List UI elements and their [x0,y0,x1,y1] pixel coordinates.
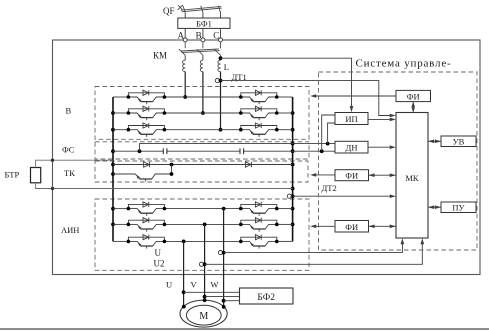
wire BTR bottom lead to right bus [36,183,293,190]
inverter AIN dashed enclosure [95,199,309,270]
capacitor C1 [163,148,167,154]
wire phase C reactor to DT1 and rectifier row 3 [219,72,223,132]
svg-text:QF: QF [163,6,175,16]
wire sense branch to IP lower pin [328,123,335,144]
wire phase A reactor to rectifier row 1 [183,72,187,99]
filter FS dashed enclosure [95,142,309,159]
current sensor on phase W [218,251,225,255]
svg-text:ДН: ДН [346,143,358,153]
diode TK VD1 [144,162,150,167]
wire DT2 signal to MK [293,194,396,198]
encoder block BF2 [240,288,294,304]
svg-text:ФС: ФС [62,145,75,155]
wire rectifier row 2 [113,112,293,114]
current sensor on phase V [199,262,206,266]
wire V to BF2 [203,295,240,299]
wire phase B reactor to rectifier row 2 [201,72,205,115]
wire KM phase C tap to IP (power supply) [219,56,354,112]
inductor L phase C [218,60,221,71]
wire phase V sensor signal to MK [205,238,425,264]
rectifier B dashed enclosure [95,87,309,140]
svg-text:ТК: ТК [64,168,75,178]
svg-text:C: C [213,31,219,41]
transistor rectifier arm 2 right [239,106,279,120]
node A terminal [178,31,188,42]
wire FI bottom to inverter gates [310,225,335,229]
svg-text:ДТ2: ДТ2 [322,183,337,193]
block MK (microcontroller) [396,113,428,239]
node B terminal [196,31,205,42]
wire KM to line reactors [185,55,220,60]
wire DT1 signal to MK [221,81,396,118]
block IP (power supply) [335,113,368,125]
bottom page rule [0,328,489,330]
wire rectifier row 3 [113,129,293,131]
wire upper voltage-sense line to DN [140,142,336,151]
transistor TK chopper [113,165,173,182]
svg-text:U2: U2 [154,259,165,269]
svg-text:БФ1: БФ1 [196,19,212,29]
transistor rectifier arm 1 right [239,90,279,104]
wire FI top to rectifier gates [310,94,396,98]
current sensor DT2 on DC bus [287,183,336,198]
wire FI middle to MK (bidirectional) [369,173,397,177]
wire FI middle to TK gate [310,173,335,177]
wire phase W sensor signal to MK [224,238,405,252]
transistor rectifier arm 2 left [127,106,167,120]
svg-text:Система управле-: Система управле- [356,58,452,70]
wire motor phase V from inverter row 2 [203,223,207,301]
transistor inverter arm 2 left [127,218,167,232]
svg-text:КМ: КМ [153,51,167,61]
svg-text:W: W [211,280,219,290]
wire FI bottom to MK (bidirectional) [369,225,397,229]
svg-text:ПУ: ПУ [452,203,465,213]
wire QF to BF1 box (3 stubs) [185,12,220,18]
wire rectifier row 1 [113,96,293,98]
transistor inverter arm 3 left [127,235,167,249]
svg-text:М: М [199,311,208,322]
transistor rectifier arm 1 left [127,90,167,104]
svg-text:В: В [66,106,72,116]
motor M [180,298,227,327]
transistor inverter arm 3 right [239,235,279,249]
block FI middle (pulse shaper for chopper) [335,170,369,181]
node C terminal [213,31,222,42]
svg-text:V: V [191,280,198,290]
block FI top (pulse shaper for rectifier) [396,90,431,101]
block DN (voltage sensor) [335,141,368,153]
svg-text:ИП: ИП [345,114,357,124]
wire MK to PU (bidirectional) [428,205,441,209]
svg-text:МК: МК [405,173,419,183]
svg-text:B: B [196,31,202,41]
wire IP to MK [368,118,396,122]
block UV [441,136,476,147]
capacitor link line with C1 C2 [113,149,335,153]
transistor inverter arm 1 right [239,202,279,216]
wire TK diode line [113,163,293,167]
transistor rectifier arm 3 right [239,123,279,137]
svg-text:A: A [178,31,185,41]
svg-text:БФ2: БФ2 [257,293,275,303]
svg-text:ФИ: ФИ [345,171,358,181]
wire FI top to MK (bidirectional) [411,102,415,113]
svg-text:ФИ: ФИ [345,222,358,232]
wire U to BF2 [182,290,240,294]
inductor L phase B [200,60,203,71]
block PU [441,202,476,213]
transistor inverter arm 1 left [127,202,167,216]
capacitor C2 [240,148,244,154]
svg-text:УВ: УВ [453,137,465,147]
transistor rectifier arm 3 left [127,123,167,137]
wire BTR top lead [36,159,113,168]
block FI bottom (pulse shaper for inverter) [335,221,369,233]
wire inverter row 2 [113,223,293,225]
wire MK to UV (bidirectional) [428,140,441,144]
filter block BF1 [178,18,230,29]
svg-text:L: L [224,62,229,72]
diode TK VD2 [245,162,251,167]
svg-text:U: U [166,280,172,290]
outer enclosure box of frequency converter [53,40,481,275]
current sensor DT1 on phase C [215,72,246,83]
wire DN to MK [368,145,396,149]
resistor BTR (brake resistor) [5,168,41,183]
inductor L phase A [183,60,186,71]
svg-text:АИН: АИН [61,225,79,235]
circuit breaker QF (3 poles with linkage) [178,5,222,12]
svg-text:U: U [155,248,162,258]
contactor KM (3 poles with linkage) [179,42,221,55]
svg-text:БТР: БТР [5,170,20,180]
control system dashed enclosure [319,72,478,250]
wire right DC bus [291,97,295,241]
wire motor phase U from inverter row 3 [182,240,186,307]
svg-text:ФИ: ФИ [407,92,420,102]
wire motor phase W from inverter row 1 [222,207,226,307]
wire inverter row 3 [113,240,293,242]
wire sense branch to IP upper pin [322,115,335,151]
wire BF1 to input terminals [185,28,220,37]
brake chopper TK dashed enclosure [95,161,308,182]
wire W to BF2 [222,299,240,303]
transistor inverter arm 2 right [239,218,279,232]
wire inverter row 1 [113,208,293,210]
wire left DC bus [111,97,115,241]
